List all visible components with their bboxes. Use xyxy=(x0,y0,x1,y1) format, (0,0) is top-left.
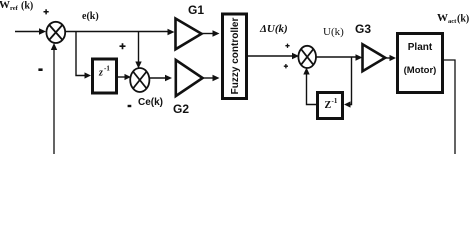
plus sign at S3 (bottom) xyxy=(284,64,288,68)
wire: G1 output into fuzzy controller xyxy=(202,30,220,37)
svg-text:W: W xyxy=(437,12,448,24)
gain G1 triangle xyxy=(176,19,202,50)
svg-text:Plant: Plant xyxy=(408,42,433,53)
svg-text:G3: G3 xyxy=(355,22,371,36)
svg-text:Z: Z xyxy=(325,100,332,111)
summing junction S3 xyxy=(298,46,316,68)
svg-text:e(k): e(k) xyxy=(82,11,99,22)
wire: dU(k) from fuzzy controller to summer S3 xyxy=(247,53,300,60)
delay block Z1 xyxy=(93,59,117,93)
svg-text:ΔU(k): ΔU(k) xyxy=(259,23,288,35)
wire: branch from U(k) down into delay Z2 xyxy=(344,57,352,108)
wire: feedback from plant output up into S1 xyxy=(51,43,57,154)
wire: e(k) from S1 to G1 xyxy=(65,29,174,36)
minus sign at S1 xyxy=(38,68,42,71)
svg-text:G2: G2 xyxy=(173,102,189,116)
svg-text:(k): (k) xyxy=(21,1,33,12)
svg-text:Ce(k): Ce(k) xyxy=(138,97,163,108)
wire: W_ref input into summer S1 xyxy=(15,28,46,35)
svg-text:act: act xyxy=(448,18,457,25)
summing junction S1 xyxy=(46,22,65,43)
svg-text:W: W xyxy=(0,0,10,11)
wire: branch from e(k) down and right into delay Z1 xyxy=(76,32,91,79)
plus sign at S1 xyxy=(44,9,49,14)
svg-text:G1: G1 xyxy=(188,3,204,17)
plus sign at S2 xyxy=(120,43,126,49)
svg-text:Fuzzy controller: Fuzzy controller xyxy=(230,18,241,95)
block plant (motor) xyxy=(398,34,443,93)
minus sign at S2 xyxy=(128,105,132,107)
delay block Z2 xyxy=(318,93,343,119)
node W_ref(k) input label xyxy=(0,0,33,12)
node W_act(k) output label xyxy=(437,12,469,25)
gain G3 triangle xyxy=(363,44,386,71)
gain G2 triangle xyxy=(176,60,203,96)
wire: U(k) from S3 to G3 xyxy=(316,54,363,61)
wire: e(k) branch down into summer S2 (plus input) xyxy=(135,32,141,69)
wire: plant output W_act right and down to bottom feedback xyxy=(444,60,456,154)
wire: Z2 output left and up into S3 xyxy=(303,68,317,105)
svg-text:-1: -1 xyxy=(332,97,338,105)
svg-text:z: z xyxy=(98,68,103,79)
svg-text:-1: -1 xyxy=(104,65,110,73)
wire: G3 output into plant xyxy=(386,55,397,61)
plus sign at S3 (top) xyxy=(285,44,289,48)
svg-text:ref: ref xyxy=(10,5,19,12)
wire: Z1 output into summer S2 xyxy=(118,74,131,80)
wire: G2 output into fuzzy controller xyxy=(203,75,220,82)
node delta-U(k) label xyxy=(259,23,288,35)
svg-text:(Motor): (Motor) xyxy=(404,65,437,76)
summing junction S2 xyxy=(130,68,149,92)
svg-text:U(k): U(k) xyxy=(323,26,344,38)
svg-text:(k): (k) xyxy=(457,14,469,25)
block fuzzy controller xyxy=(223,14,247,99)
wire: Ce(k) from S2 to G2 xyxy=(150,75,173,82)
